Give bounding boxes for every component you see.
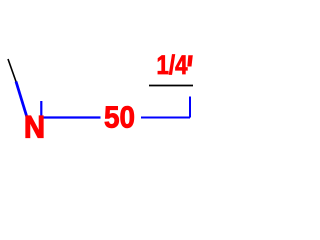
svg-text:N: N: [24, 109, 45, 145]
inch mark after 1/4: [187, 55, 193, 66]
svg-text:50: 50: [104, 101, 135, 135]
svg-text:1/4: 1/4: [157, 50, 188, 80]
wire: blue diagonal segment (lower part): [16, 82, 28, 120]
wire: blue corner (vertical drop + horizontal run) left of label 50: [41, 101, 100, 118]
wire: blue vertical tick at right end: [189, 97, 191, 118]
wire: blue horizontal run right of label 50: [141, 117, 190, 119]
wire: black diagonal segment upper-left: [8, 59, 17, 83]
wire: black horizontal line top right: [149, 85, 193, 87]
